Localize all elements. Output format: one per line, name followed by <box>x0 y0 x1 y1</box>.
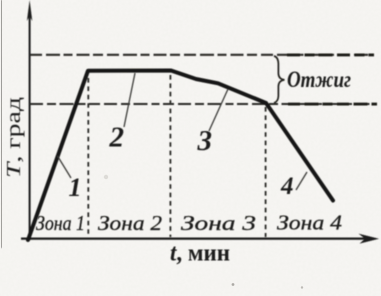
svg-text:Зона 3: Зона 3 <box>181 211 256 235</box>
scan speck <box>232 283 235 286</box>
svg-text:4: 4 <box>280 173 294 200</box>
svg-text:Зона 4: Зона 4 <box>277 211 342 235</box>
vertical dashed zone boundary 1 <box>87 78 89 237</box>
dashed horizontal line lower (annealing bottom level) <box>30 103 377 105</box>
y-axis arrowhead <box>27 0 32 21</box>
leader line to segment 1 <box>58 156 72 178</box>
svg-text:Зона 1: Зона 1 <box>36 211 85 235</box>
vertical dashed zone boundary 3 <box>265 107 267 237</box>
svg-text:Отжиг: Отжиг <box>287 67 351 92</box>
svg-text:1: 1 <box>69 173 82 202</box>
x-axis <box>21 238 370 240</box>
leader line to segment 3 <box>209 89 228 131</box>
y-axis <box>29 12 31 240</box>
x-axis arrowhead <box>359 234 380 244</box>
leader line to segment 4 <box>296 172 307 190</box>
dashed horizontal line upper (annealing top level) <box>30 54 374 56</box>
svg-text:Зона 2: Зона 2 <box>98 211 162 235</box>
brace for annealing range <box>274 56 285 103</box>
svg-text:3: 3 <box>197 125 213 157</box>
scan gutter line left edge <box>1 0 3 248</box>
dashed line lower, darker right portion <box>288 103 377 106</box>
svg-text:t, мин: t, мин <box>170 241 230 267</box>
scan speck <box>104 175 108 179</box>
temperature curve: rise, soak, slow cool, fast cool <box>28 71 333 241</box>
scan speck <box>301 286 303 288</box>
vertical dashed zone boundary 2 <box>169 75 171 237</box>
svg-text:2: 2 <box>109 122 125 154</box>
svg-text:Т, град: Т, град <box>3 97 25 178</box>
leader line to segment 2 <box>124 73 135 127</box>
dashed line upper, darker right portion <box>287 53 374 56</box>
